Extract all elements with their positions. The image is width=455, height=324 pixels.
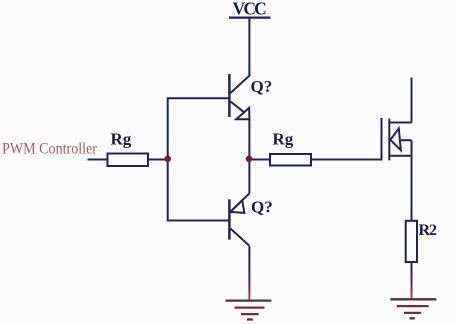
svg-text:Q?: Q? bbox=[251, 77, 273, 96]
svg-text:VCC: VCC bbox=[233, 0, 267, 18]
svg-text:Q?: Q? bbox=[251, 197, 273, 216]
svg-text:Rg: Rg bbox=[111, 130, 132, 149]
svg-text:PWM Controller: PWM Controller bbox=[2, 141, 98, 158]
svg-text:R2: R2 bbox=[419, 222, 438, 239]
svg-text:Rg: Rg bbox=[273, 130, 294, 149]
